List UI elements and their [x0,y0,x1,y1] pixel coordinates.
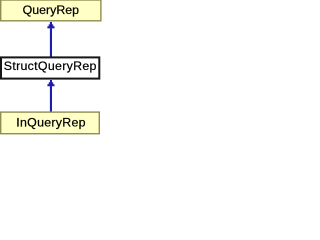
wire inheritance arrow StructQueryRep to QueryRep [47,22,54,57]
svg-text:QueryRep: QueryRep [23,3,80,17]
svg-text:StructQueryRep: StructQueryRep [4,59,97,73]
node InQueryRep [1,112,100,134]
node QueryRep [1,0,101,21]
svg-text:InQueryRep: InQueryRep [16,115,86,129]
wire inheritance arrow InQueryRep to StructQueryRep [47,80,54,112]
node StructQueryRep [1,57,99,78]
